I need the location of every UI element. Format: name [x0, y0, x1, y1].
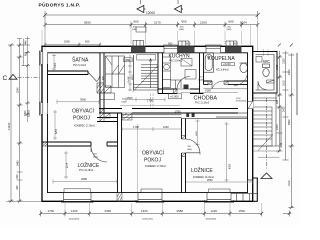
window left satna — [41, 52, 48, 64]
svg-text:1220: 1220 — [211, 209, 218, 213]
svg-text:1152: 1152 — [163, 125, 169, 129]
svg-text:2660: 2660 — [207, 179, 213, 182]
svg-text:1780: 1780 — [175, 109, 181, 113]
svg-text:1790: 1790 — [147, 99, 153, 103]
svg-text:KČL 6,84m2: KČL 6,84m2 — [216, 69, 229, 72]
svg-text:OBÝVACÍ: OBÝVACÍ — [72, 108, 94, 115]
top dimension row 1 — [43, 11, 260, 19]
exterior wall inner line — [48, 53, 248, 193]
bottom extension lines — [65, 203, 262, 213]
satna bottom wall — [48, 71, 89, 75]
svg-text:(900): (900) — [179, 29, 184, 31]
svg-text:4380: 4380 — [230, 163, 232, 169]
svg-text:1000(1040): 1000(1040) — [69, 218, 80, 220]
exterior wall outline outer — [42, 46, 253, 201]
svg-text:KOBEREC 17,06m2: KOBEREC 17,06m2 — [74, 126, 96, 128]
svg-text:1200: 1200 — [71, 209, 78, 213]
window bottom loznice-left — [64, 193, 92, 201]
svg-text:WC: WC — [263, 59, 270, 64]
door entrance — [248, 101, 253, 108]
hatch blob koupelna door jamb — [208, 81, 228, 84]
window left obyvaci — [41, 103, 48, 114]
svg-text:900: 900 — [168, 41, 173, 45]
svg-text:3460: 3460 — [16, 160, 19, 166]
svg-text:2340: 2340 — [276, 124, 279, 130]
svg-text:1950: 1950 — [124, 59, 130, 62]
bottom-right exterior steps — [231, 194, 257, 202]
hatch jambs loznice-right door — [182, 136, 186, 157]
chimney block 1 hatched — [131, 40, 146, 53]
hatch blob hall near satna door — [97, 83, 111, 93]
chimney block 3 hatched — [225, 41, 242, 53]
svg-text:LOŽNICE: LOŽNICE — [78, 161, 100, 169]
section mark C bottom right — [261, 173, 272, 179]
svg-text:3000: 3000 — [288, 69, 291, 75]
svg-text:(900): (900) — [93, 156, 98, 158]
svg-text:1500: 1500 — [239, 209, 246, 213]
svg-text:2460: 2460 — [105, 209, 112, 213]
svg-text:900: 900 — [188, 146, 192, 148]
svg-text:2170: 2170 — [154, 21, 161, 25]
loznice-right top wall — [182, 113, 248, 119]
kitchen koupelna divider — [200, 53, 204, 85]
svg-text:CHODBA: CHODBA — [194, 96, 218, 102]
svg-text:1780: 1780 — [133, 125, 139, 129]
svg-text:600: 600 — [229, 19, 234, 23]
hatch wall junction obyvaci corner — [100, 109, 110, 122]
svg-text:1420: 1420 — [55, 62, 57, 68]
svg-text:1200(1240): 1200(1240) — [142, 218, 153, 220]
svg-text:5650: 5650 — [288, 119, 291, 125]
svg-text:440: 440 — [25, 40, 28, 45]
svg-text:4280: 4280 — [56, 128, 58, 134]
dim labels row 2 — [84, 19, 247, 24]
svg-text:PŮDORYS 1.N.P.: PŮDORYS 1.N.P. — [39, 0, 81, 8]
left window dim line — [17, 37, 30, 123]
svg-text:2540: 2540 — [16, 87, 19, 93]
svg-text:5650: 5650 — [84, 21, 91, 25]
svg-text:11130: 11130 — [7, 122, 11, 130]
top dimension row 2 — [44, 22, 260, 28]
svg-text:1610: 1610 — [288, 180, 291, 186]
dim row 3 above wall — [44, 43, 248, 47]
svg-text:2400: 2400 — [282, 106, 285, 112]
svg-text:ŠATNA: ŠATNA — [72, 57, 89, 64]
tiny window labels under row2 — [132, 26, 232, 31]
svg-text:LOŽNICE: LOŽNICE — [191, 166, 213, 174]
svg-text:600: 600 — [25, 51, 28, 56]
svg-text:2100: 2100 — [200, 21, 207, 25]
chodba bottom wall — [99, 109, 238, 114]
svg-text:KOBEREC 16,01m2: KOBEREC 16,01m2 — [193, 177, 215, 179]
door loznice-right — [186, 139, 201, 155]
door wc — [258, 81, 267, 90]
svg-text:1970(1900): 1970(1900) — [236, 101, 247, 103]
svg-text:POKOJ: POKOJ — [144, 158, 161, 164]
window bottom loznice-right — [207, 193, 231, 201]
svg-text:B50: B50 — [199, 77, 202, 79]
svg-text:(900): (900) — [227, 29, 232, 31]
svg-text:1004: 1004 — [240, 21, 247, 25]
top right extension lines — [42, 16, 268, 56]
svg-text:PVC 5,41m2: PVC 5,41m2 — [73, 65, 87, 67]
section flag top 2 — [175, 5, 184, 12]
window top koupelna — [206, 46, 221, 53]
obyvaci-left / loznice-left divider — [42, 142, 118, 146]
level box koupelna — [222, 62, 235, 65]
section flag top 1 — [137, 5, 146, 12]
chimney block top — [136, 27, 146, 32]
svg-text:1800: 1800 — [24, 110, 27, 116]
loznice-right width dim — [186, 180, 253, 184]
svg-text:940: 940 — [16, 185, 19, 190]
bottom-right step corner — [253, 178, 258, 201]
window bottom center — [138, 193, 162, 201]
svg-text:600: 600 — [134, 19, 139, 23]
washbasin — [240, 63, 248, 73]
svg-text:12000: 12000 — [146, 11, 155, 15]
door obyvaci-left — [91, 146, 107, 162]
bottom wall extension line left — [6, 200, 42, 202]
svg-text:KOBEREC 17,84m2: KOBEREC 17,84m2 — [145, 166, 167, 168]
svg-text:1610: 1610 — [282, 80, 285, 86]
stairs dim line — [128, 55, 132, 91]
hatch junction divider left wall — [42, 142, 48, 146]
svg-text:1180: 1180 — [196, 131, 198, 136]
left rotated labels — [16, 40, 31, 190]
stairs left line — [133, 55, 135, 90]
radiator under loznice-left window — [64, 189, 91, 193]
satna right wall — [100, 53, 104, 113]
hatched junction loznice-left bottom — [117, 193, 122, 202]
interior dim loznice-right door — [196, 120, 200, 147]
svg-text:600: 600 — [94, 154, 98, 156]
stairs right wall — [158, 53, 163, 94]
window top kuchyn — [164, 46, 178, 53]
radiator center room window — [141, 189, 162, 193]
bathtub — [204, 53, 214, 72]
left dimension line outer — [8, 44, 14, 203]
loznice-left right wall — [118, 122, 122, 193]
koupelna bottom wall — [204, 81, 248, 84]
svg-text:3150: 3150 — [205, 89, 211, 93]
svg-text:3660: 3660 — [80, 98, 86, 102]
svg-text:10x180: 10x180 — [128, 76, 130, 83]
svg-text:C: C — [3, 75, 8, 82]
svg-text:POKOJ: POKOJ — [73, 116, 90, 122]
svg-text:KUCHYŇ: KUCHYŇ — [169, 53, 191, 60]
svg-text:500: 500 — [248, 179, 253, 182]
svg-text:PVC 11,18m2: PVC 11,18m2 — [195, 103, 210, 105]
satna interior dim — [52, 54, 56, 71]
svg-text:2680: 2680 — [81, 177, 87, 181]
stairs box label — [124, 58, 133, 62]
loznice-left interior dim — [53, 110, 117, 184]
svg-text:600: 600 — [16, 174, 19, 179]
door satna — [88, 73, 100, 82]
svg-text:1500A: 1500A — [198, 78, 204, 81]
svg-text:OBÝVACÍ: OBÝVACÍ — [142, 150, 164, 157]
section line C vertical right — [266, 98, 268, 170]
svg-text:8x250: 8x250 — [132, 74, 134, 80]
svg-text:(1500): (1500) — [28, 110, 31, 117]
left dimension line inner — [17, 44, 23, 203]
svg-text:1320: 1320 — [141, 209, 148, 213]
svg-text:1500: 1500 — [127, 96, 133, 100]
svg-text:600: 600 — [186, 41, 191, 45]
svg-text:(900): (900) — [132, 29, 137, 31]
porch stairs right — [253, 93, 281, 151]
hall closet block — [106, 56, 125, 88]
door kuchyn — [177, 76, 190, 89]
svg-text:2580: 2580 — [177, 209, 184, 213]
arc koupelna right — [234, 72, 248, 86]
dark blobs loznice top wall — [186, 114, 189, 117]
svg-text:(900): (900) — [122, 101, 127, 103]
svg-text:600: 600 — [228, 26, 232, 28]
svg-text:1140: 1140 — [280, 142, 283, 148]
radiator loznice-right window — [209, 189, 231, 193]
door koupelna — [212, 81, 224, 89]
hatched threshold chodba/center — [122, 113, 132, 120]
svg-text:600: 600 — [180, 26, 184, 28]
level mark box — [169, 94, 182, 99]
extension lines top — [45, 16, 242, 48]
svg-text:+0,000: +0,000 — [223, 63, 231, 66]
svg-text:PVC 5,54m2: PVC 5,54m2 — [169, 61, 183, 63]
facade sill line left — [38, 51, 40, 116]
chodba upper edge line — [204, 88, 248, 90]
center room top thin line — [122, 115, 182, 118]
svg-text:600: 600 — [182, 19, 187, 23]
closet box hall — [100, 93, 115, 100]
svg-text:+0,000: +0,000 — [170, 95, 179, 99]
svg-text:(800): (800) — [187, 149, 192, 151]
svg-text:900: 900 — [276, 99, 279, 104]
svg-text:1700: 1700 — [48, 209, 55, 213]
svg-text:2775: 2775 — [67, 162, 69, 168]
svg-text:1800: 1800 — [276, 64, 279, 70]
svg-text:1500(1940): 1500(1940) — [206, 218, 217, 220]
center/loznice-right divider wall — [182, 119, 186, 193]
section trace line vertical center — [137, 124, 139, 193]
wc toilet — [263, 64, 270, 68]
svg-text:KOUPELNA: KOUPELNA — [208, 56, 236, 62]
svg-text:1500: 1500 — [282, 58, 285, 64]
WC annex right — [253, 52, 277, 94]
svg-text:PVC 16,18m2: PVC 16,18m2 — [79, 170, 94, 172]
chimney block 2 hatched — [178, 41, 195, 53]
hatch blob kitchen door jamb — [174, 89, 178, 94]
center room left corner walls — [97, 113, 122, 122]
svg-text:600: 600 — [85, 39, 90, 43]
svg-text:2000: 2000 — [64, 39, 70, 43]
chodba top wall kitchen side — [158, 84, 204, 93]
